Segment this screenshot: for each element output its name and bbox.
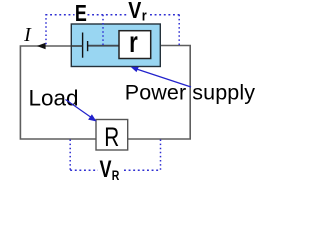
Power supply pointer arrowhead [131,67,139,72]
dotted horizontal segment right of V_r [150,14,180,16]
battery short plate [87,41,89,51]
dotted V_R horizontal left of text [70,169,98,171]
battery long plate [82,33,84,58]
svg-text:R: R [104,123,119,153]
Load pointer arrowhead [88,114,97,121]
dotted V_R bracket right vertical [160,140,162,171]
internal resistance r box [119,31,151,59]
wire inside blue box left of battery [71,45,82,47]
svg-text:V: V [100,157,112,183]
Power supply pointer arrow line [135,69,191,88]
label V_R bottom [100,157,120,184]
wire top-left segment with corner down the left side [20,46,96,139]
svg-text:r: r [129,25,138,59]
svg-text:E: E [75,1,87,27]
svg-text:R: R [112,168,120,184]
wire bottom-right segment from R to right side up to top [128,46,191,140]
load resistor R box [96,120,128,151]
svg-text:V: V [128,0,142,24]
wire battery to r box [88,45,119,47]
dotted E bracket left vertical [45,14,47,45]
dotted V_r right vertical [178,15,180,45]
dotted V_R bracket left vertical [69,140,71,171]
label V_r top [128,0,147,24]
svg-text:I: I [23,24,32,46]
current arrowhead on top wire [37,43,46,49]
svg-text:r: r [142,6,147,23]
dotted horizontal segment left of E [46,14,75,16]
dotted E/V_r shared middle vertical [102,15,104,46]
svg-text:Load: Load [29,85,79,110]
svg-text:Power supply: Power supply [125,81,255,105]
Load pointer arrow line [66,100,93,119]
power supply blue box [71,24,160,67]
dotted horizontal segment between E and V_r [88,14,128,16]
dotted V_R horizontal right of text [124,169,161,171]
